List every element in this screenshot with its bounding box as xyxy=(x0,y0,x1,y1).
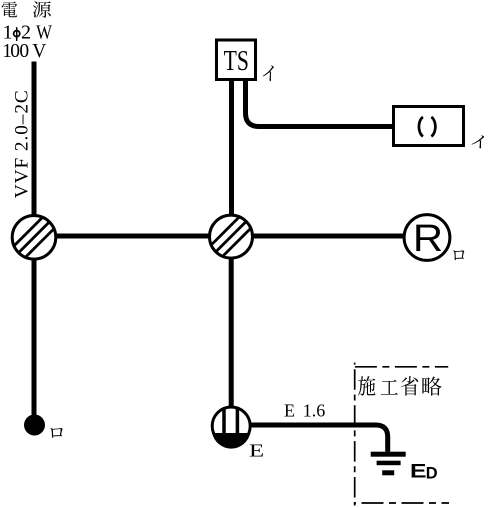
svg-text:TS: TS xyxy=(224,45,249,77)
svg-text:W: W xyxy=(36,21,52,43)
svg-text:E1.6: E1.6 xyxy=(284,401,325,421)
svg-text:100V: 100V xyxy=(2,41,46,62)
svg-text:D: D xyxy=(426,465,438,483)
svg-text:E: E xyxy=(249,441,264,461)
svg-text:VVF 2.0–2C: VVF 2.0–2C xyxy=(12,90,33,198)
svg-text:E: E xyxy=(410,460,426,482)
svg-text:R: R xyxy=(413,218,443,260)
